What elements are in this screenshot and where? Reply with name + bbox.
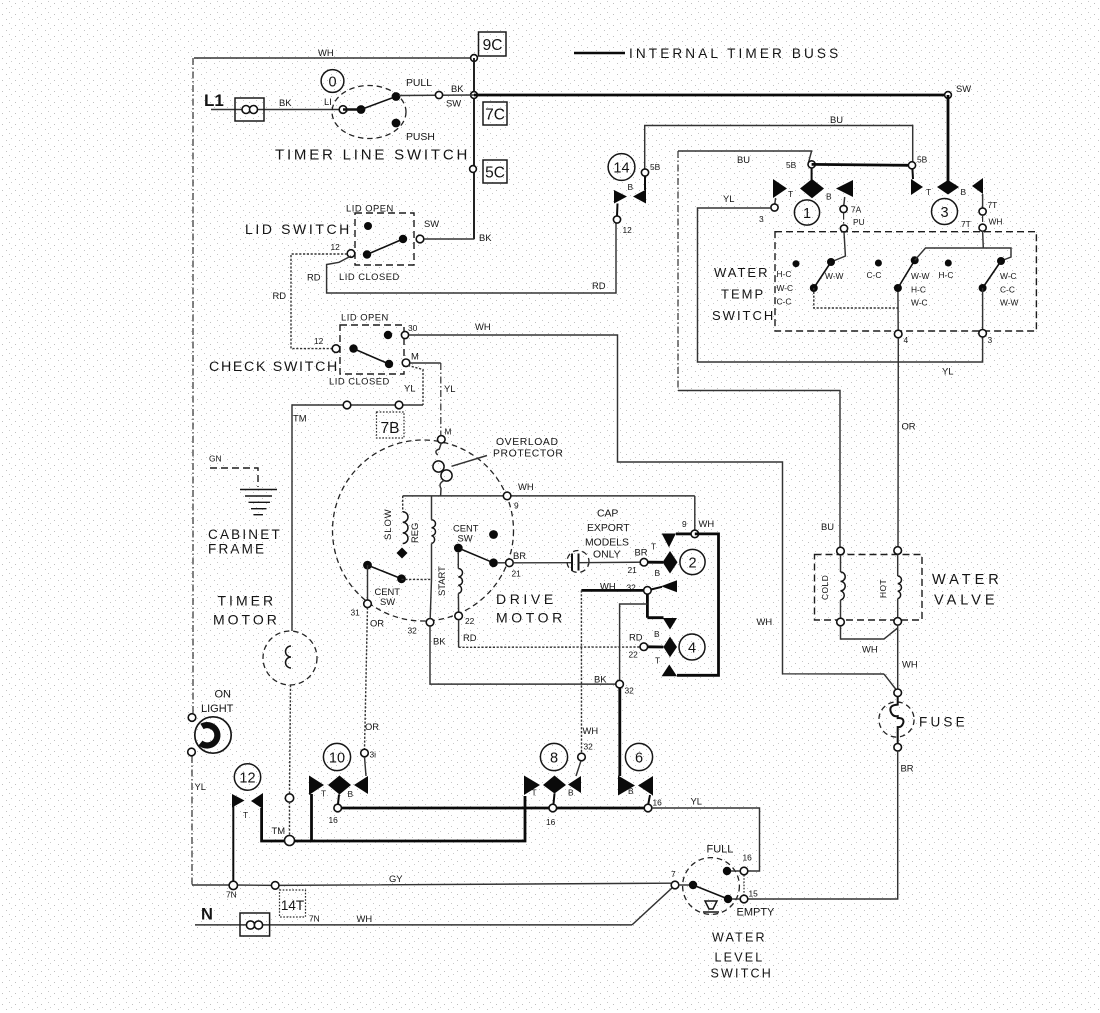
node 16 at connector 10 bbox=[329, 804, 342, 825]
svg-text:EMPTY: EMPTY bbox=[737, 907, 776, 919]
node M drive motor bbox=[438, 436, 446, 444]
water level switch labels bbox=[707, 844, 776, 981]
svg-text:OVERLOAD: OVERLOAD bbox=[496, 437, 559, 448]
svg-text:7T: 7T bbox=[988, 200, 998, 210]
label cabinet frame bbox=[208, 527, 282, 557]
svg-text:21: 21 bbox=[512, 569, 522, 579]
svg-text:INTERNAL TIMER BUSS: INTERNAL TIMER BUSS bbox=[629, 46, 841, 61]
svg-text:WH: WH bbox=[318, 47, 334, 58]
wire 7T into switch bbox=[982, 231, 985, 248]
svg-text:VALVE: VALVE bbox=[934, 593, 999, 609]
water temp switch box bbox=[712, 232, 1036, 331]
circled 6 bbox=[625, 743, 652, 770]
svg-text:TIMER LINE SWITCH: TIMER LINE SWITCH bbox=[275, 147, 470, 164]
node 32 motor bbox=[408, 579, 447, 646]
svg-text:BK: BK bbox=[479, 232, 492, 243]
node 3i above connector 10 bbox=[361, 749, 376, 776]
node 7A bbox=[840, 205, 862, 215]
svg-text:FRAME: FRAME bbox=[208, 542, 266, 557]
wire M check switch to drive motor bbox=[410, 363, 455, 437]
wire WH valve commons bbox=[841, 625, 918, 689]
circled 10 bbox=[323, 743, 350, 770]
node 5B left junction bbox=[786, 160, 815, 170]
connector 4 group bbox=[648, 618, 677, 676]
water temp switch pole 3 bbox=[945, 257, 1005, 330]
svg-text:TIMER: TIMER bbox=[218, 593, 277, 609]
svg-text:21: 21 bbox=[628, 565, 638, 575]
connector 8 group bbox=[524, 776, 581, 805]
svg-text:TEMP: TEMP bbox=[721, 287, 765, 302]
svg-text:WATER: WATER bbox=[932, 572, 1003, 588]
svg-text:PROTECTOR: PROTECTOR bbox=[493, 449, 563, 460]
overload protector bbox=[433, 443, 452, 496]
svg-text:L1: L1 bbox=[204, 91, 224, 110]
internal buss 5B to 5B bbox=[812, 163, 912, 167]
svg-text:0: 0 bbox=[328, 75, 336, 91]
node 21 at connector 2 bbox=[628, 542, 657, 576]
svg-text:9: 9 bbox=[514, 501, 519, 511]
node 31 bbox=[351, 600, 385, 629]
svg-text:RD: RD bbox=[273, 290, 287, 301]
svg-text:7N: 7N bbox=[226, 890, 237, 900]
svg-text:16: 16 bbox=[546, 817, 556, 827]
svg-text:9: 9 bbox=[682, 519, 687, 529]
wire WH 32 dotted down to connector 8 bbox=[581, 590, 598, 753]
svg-text:16: 16 bbox=[743, 853, 753, 863]
svg-text:C-C: C-C bbox=[777, 297, 792, 307]
svg-text:PU: PU bbox=[853, 217, 865, 227]
svg-text:CAP: CAP bbox=[597, 509, 618, 520]
label drive motor bbox=[496, 591, 566, 626]
lid switch bbox=[245, 203, 439, 283]
svg-text:BU: BU bbox=[821, 521, 834, 532]
terminal box 14T bbox=[280, 890, 306, 917]
svg-text:SWITCH: SWITCH bbox=[711, 967, 774, 981]
node BK/SW junction bbox=[471, 92, 478, 99]
svg-text:14T: 14T bbox=[281, 898, 304, 913]
svg-text:32: 32 bbox=[584, 742, 594, 752]
svg-text:START: START bbox=[436, 566, 447, 596]
wire YL connector 6 to water level switch FULL bbox=[652, 796, 760, 872]
circled 0 bbox=[321, 70, 344, 93]
node 16 at connector 8 bbox=[546, 804, 557, 827]
node BK 32 junction bbox=[616, 680, 634, 695]
cold solenoid bbox=[820, 547, 845, 626]
svg-text:W-C: W-C bbox=[911, 298, 928, 308]
svg-text:LID OPEN: LID OPEN bbox=[346, 203, 394, 214]
svg-text:31: 31 bbox=[351, 608, 361, 618]
svg-text:SW: SW bbox=[380, 596, 395, 607]
wire GY bottom bbox=[192, 873, 672, 900]
svg-text:WH: WH bbox=[518, 481, 534, 492]
svg-text:YL: YL bbox=[404, 383, 415, 394]
svg-text:WH: WH bbox=[600, 581, 616, 592]
svg-text:3: 3 bbox=[988, 335, 993, 345]
svg-text:12: 12 bbox=[331, 242, 341, 252]
timer motor bbox=[263, 631, 317, 794]
wire switch to SW junction bbox=[399, 83, 474, 109]
circled 1 bbox=[794, 200, 819, 225]
wire vertical 9C-7C-5C column bbox=[473, 58, 475, 239]
svg-text:FUSE: FUSE bbox=[919, 715, 968, 730]
wire 7T link bbox=[961, 215, 1002, 229]
wire OR node4 to hot valve bbox=[898, 338, 916, 547]
svg-text:T: T bbox=[243, 810, 248, 820]
start winding bbox=[436, 552, 463, 612]
svg-text:MOTOR: MOTOR bbox=[496, 610, 566, 626]
connector plug on N lead bbox=[240, 913, 270, 936]
node PU on water temp switch bbox=[840, 225, 847, 232]
circled 14 bbox=[608, 154, 635, 181]
svg-text:B: B bbox=[628, 182, 634, 192]
svg-text:B: B bbox=[348, 789, 354, 799]
svg-text:3i: 3i bbox=[370, 750, 377, 760]
connector plug on L1 lead bbox=[235, 98, 264, 121]
connector 14 bowtie bbox=[614, 176, 646, 216]
terminal box 7B bbox=[377, 412, 405, 438]
svg-text:30: 30 bbox=[408, 323, 418, 333]
svg-text:M: M bbox=[411, 351, 419, 362]
terminal box 5C bbox=[483, 160, 507, 183]
svg-text:LID CLOSED: LID CLOSED bbox=[329, 376, 390, 387]
svg-text:MODELS: MODELS bbox=[585, 538, 629, 549]
svg-text:SLOW: SLOW bbox=[382, 508, 393, 540]
wire BK 32 to node 32 right bbox=[430, 626, 616, 684]
slow winding bbox=[382, 496, 408, 559]
svg-text:H-C: H-C bbox=[777, 269, 792, 279]
svg-text:T: T bbox=[651, 542, 656, 552]
wire WH 9 down to connector 2 bbox=[682, 496, 714, 538]
reg winding bbox=[409, 496, 436, 580]
svg-text:12: 12 bbox=[623, 225, 633, 235]
svg-text:GY: GY bbox=[389, 873, 403, 884]
svg-text:B: B bbox=[568, 788, 574, 798]
wire RD lid switch 12 to connector 14 pin 12 bbox=[307, 223, 616, 293]
svg-text:LI: LI bbox=[324, 96, 332, 107]
node 3 bbox=[979, 330, 993, 346]
svg-text:5B: 5B bbox=[786, 160, 797, 170]
svg-text:W-C: W-C bbox=[777, 283, 794, 293]
svg-text:REG: REG bbox=[409, 523, 420, 543]
wire left border lower segment bbox=[191, 756, 193, 885]
connector 1 group bbox=[773, 168, 853, 206]
wire WH check switch 30 to water valve branch bbox=[409, 321, 896, 690]
svg-text:LID CLOSED: LID CLOSED bbox=[339, 271, 400, 282]
svg-text:SWITCH: SWITCH bbox=[712, 308, 775, 323]
svg-text:HOT: HOT bbox=[878, 579, 888, 598]
node 3 (connector 1) bbox=[759, 204, 778, 224]
svg-text:W-W: W-W bbox=[911, 271, 930, 281]
wire N lead WH bbox=[195, 888, 673, 925]
svg-text:FULL: FULL bbox=[707, 844, 734, 856]
svg-text:32: 32 bbox=[627, 583, 637, 593]
svg-text:9C: 9C bbox=[483, 37, 503, 54]
wire RD lid switch 12 to check switch 12 bbox=[273, 254, 348, 349]
node 12 under connector 14 bbox=[613, 216, 632, 235]
wire heavy BK down to connector 6 bbox=[618, 688, 621, 776]
internal buss TM to connector 8 bbox=[294, 796, 525, 841]
water temp switch pole 1 bbox=[793, 232, 898, 308]
svg-text:YL: YL bbox=[691, 796, 702, 807]
svg-text:TM: TM bbox=[272, 825, 286, 836]
svg-text:32: 32 bbox=[625, 686, 635, 696]
connector 2 group bbox=[648, 534, 691, 593]
svg-text:EXPORT: EXPORT bbox=[587, 523, 630, 534]
svg-text:T: T bbox=[926, 187, 931, 197]
svg-text:LID OPEN: LID OPEN bbox=[341, 312, 389, 323]
wire WH 9 motor top bbox=[403, 481, 695, 511]
svg-text:W-W: W-W bbox=[1000, 298, 1019, 308]
connector 10 group bbox=[309, 776, 368, 805]
wire 7A to PU bbox=[844, 213, 865, 227]
svg-text:WH: WH bbox=[357, 913, 373, 924]
buss vertical to connector 3 bbox=[947, 95, 950, 181]
svg-text:WATER: WATER bbox=[712, 931, 767, 945]
svg-text:CHECK SWITCH: CHECK SWITCH bbox=[209, 359, 339, 375]
node 7T upper bbox=[979, 200, 997, 215]
svg-text:YL: YL bbox=[195, 781, 206, 792]
node 7T on water temp switch bbox=[979, 224, 986, 231]
svg-text:WH: WH bbox=[583, 725, 599, 736]
circled 4 bbox=[679, 634, 705, 660]
svg-text:BK: BK bbox=[594, 674, 607, 685]
svg-text:WH: WH bbox=[757, 616, 773, 627]
wire OR 31 down to 3i bbox=[365, 608, 380, 750]
svg-text:7N: 7N bbox=[309, 914, 320, 924]
wire L1 lead BK bbox=[211, 96, 343, 110]
node SW junction bbox=[945, 83, 972, 98]
svg-text:TM: TM bbox=[293, 413, 307, 424]
svg-text:SW: SW bbox=[424, 218, 439, 229]
svg-text:2: 2 bbox=[688, 556, 696, 572]
internal buss right edge of connector block bbox=[677, 534, 719, 675]
svg-text:T: T bbox=[655, 656, 660, 666]
circled 12 bbox=[234, 764, 260, 790]
circled 8 bbox=[540, 743, 567, 770]
svg-text:C-C: C-C bbox=[1000, 285, 1015, 295]
svg-text:OR: OR bbox=[365, 721, 379, 732]
node 5B at connector 14 bbox=[641, 162, 660, 176]
svg-text:5B: 5B bbox=[917, 155, 928, 165]
svg-text:3: 3 bbox=[940, 205, 948, 221]
svg-text:BK: BK bbox=[279, 97, 292, 108]
svg-text:BR: BR bbox=[635, 547, 648, 558]
svg-text:YL: YL bbox=[444, 383, 455, 394]
svg-text:WH: WH bbox=[902, 659, 918, 670]
svg-text:H-C: H-C bbox=[939, 270, 954, 280]
svg-text:T: T bbox=[321, 789, 326, 799]
svg-text:SW: SW bbox=[446, 98, 461, 109]
circled 3 bbox=[932, 199, 958, 225]
svg-text:OR: OR bbox=[370, 618, 384, 629]
wire WH top border bbox=[194, 47, 474, 58]
svg-text:MOTOR: MOTOR bbox=[213, 612, 280, 628]
svg-text:BU: BU bbox=[830, 114, 843, 125]
svg-text:14: 14 bbox=[613, 161, 629, 177]
svg-text:T: T bbox=[532, 788, 537, 798]
cent sw upper bbox=[453, 523, 505, 568]
svg-text:BR: BR bbox=[901, 763, 914, 774]
water temp switch pole 2 bbox=[875, 248, 1011, 330]
node 5C junction bbox=[470, 166, 477, 173]
connector 6 bowtie bbox=[618, 776, 653, 805]
node WH32 above connector 8 bbox=[578, 753, 586, 761]
node BR 21 bbox=[506, 550, 527, 579]
svg-text:7: 7 bbox=[671, 869, 676, 879]
svg-text:BK: BK bbox=[451, 83, 464, 94]
svg-text:B: B bbox=[961, 187, 967, 197]
svg-text:16: 16 bbox=[653, 798, 663, 808]
wire BR fuse to water level switch bbox=[748, 751, 914, 899]
svg-text:12: 12 bbox=[314, 336, 324, 346]
svg-text:WH: WH bbox=[989, 217, 1003, 227]
svg-text:ONLY: ONLY bbox=[593, 550, 621, 561]
wire heavy connector 12 right to TM bus bbox=[262, 808, 285, 841]
wire heavy connector 12 left to 7N bbox=[232, 806, 234, 884]
svg-text:8: 8 bbox=[550, 751, 558, 767]
wire RD 22 to connector 4 bbox=[458, 620, 460, 648]
svg-text:3: 3 bbox=[759, 214, 764, 224]
svg-text:10: 10 bbox=[329, 751, 345, 767]
svg-text:15: 15 bbox=[749, 889, 759, 899]
wire BU lower loop bbox=[678, 151, 840, 547]
svg-text:LEVEL: LEVEL bbox=[715, 951, 765, 965]
svg-text:22: 22 bbox=[629, 650, 639, 660]
water valve box bbox=[815, 555, 1003, 621]
wire lid switch SW to 5C column BK bbox=[424, 232, 492, 243]
svg-text:YL: YL bbox=[723, 193, 734, 204]
svg-text:22: 22 bbox=[465, 616, 475, 626]
svg-text:WH: WH bbox=[475, 321, 491, 332]
svg-text:SW: SW bbox=[956, 83, 971, 94]
svg-text:RD: RD bbox=[629, 632, 643, 643]
svg-text:B: B bbox=[826, 192, 832, 202]
wire heavy connector 10 T to TM bus bbox=[310, 794, 313, 841]
svg-text:WH: WH bbox=[862, 644, 878, 655]
node 22 bbox=[455, 612, 477, 643]
legend: internal timer buss bbox=[574, 46, 841, 61]
fuse bbox=[879, 689, 968, 751]
svg-text:1: 1 bbox=[803, 206, 811, 222]
hot solenoid bbox=[878, 547, 902, 626]
svg-text:DRIVE: DRIVE bbox=[496, 591, 557, 607]
internal buss 16 line bbox=[342, 807, 645, 810]
internal timer buss top: SW bus bbox=[474, 94, 948, 97]
svg-text:C-C: C-C bbox=[867, 270, 882, 280]
svg-text:5B: 5B bbox=[650, 162, 661, 172]
node 4 bbox=[894, 330, 908, 345]
check switch bbox=[209, 312, 419, 387]
capacitor cap export bbox=[513, 509, 640, 573]
node TM junction bbox=[272, 825, 295, 846]
svg-text:6: 6 bbox=[635, 751, 643, 767]
svg-text:WH: WH bbox=[699, 518, 715, 529]
svg-text:16: 16 bbox=[329, 815, 339, 825]
node 5B right bbox=[908, 155, 927, 169]
svg-text:PULL: PULL bbox=[406, 78, 432, 89]
wire heavy down from WH32 node bbox=[620, 594, 664, 680]
label timer motor bbox=[213, 593, 280, 628]
svg-text:5C: 5C bbox=[485, 165, 505, 182]
svg-text:RD: RD bbox=[592, 280, 606, 291]
svg-text:B: B bbox=[654, 629, 660, 639]
node on TM line bbox=[285, 794, 293, 802]
terminal box 9C bbox=[479, 32, 507, 56]
svg-text:BK: BK bbox=[433, 636, 446, 647]
label overload protector bbox=[452, 437, 564, 466]
svg-text:W-C: W-C bbox=[1000, 271, 1017, 281]
svg-text:RD: RD bbox=[307, 272, 321, 283]
timer line switch bbox=[332, 78, 435, 143]
svg-text:B: B bbox=[628, 786, 634, 796]
terminal box 7C bbox=[483, 102, 507, 125]
svg-text:7T: 7T bbox=[961, 219, 971, 229]
svg-text:RD: RD bbox=[463, 632, 477, 643]
svg-text:ON: ON bbox=[215, 689, 232, 701]
svg-text:7B: 7B bbox=[381, 420, 400, 437]
connector 3 group bbox=[911, 169, 983, 209]
svg-text:LIGHT: LIGHT bbox=[201, 703, 234, 715]
wire YL connector1 pin3 loop around water temp switch bbox=[698, 193, 983, 377]
svg-text:12: 12 bbox=[239, 771, 255, 787]
drive motor dashed circle bbox=[333, 440, 514, 621]
svg-text:LID SWITCH: LID SWITCH bbox=[245, 221, 352, 237]
svg-text:BR: BR bbox=[513, 550, 526, 561]
on light bbox=[188, 689, 234, 793]
connector 12 bowtie bbox=[232, 793, 263, 820]
circled 2 bbox=[680, 549, 705, 574]
svg-text:4: 4 bbox=[688, 641, 696, 657]
wire TM line bbox=[292, 401, 423, 631]
svg-text:T: T bbox=[788, 189, 793, 199]
wire left border YL (dash-dot) bbox=[192, 58, 194, 713]
svg-text:4: 4 bbox=[904, 335, 909, 345]
water level switch bbox=[671, 858, 748, 915]
node 16 at connector 6 bbox=[644, 798, 662, 812]
svg-text:N: N bbox=[201, 906, 213, 924]
svg-text:7C: 7C bbox=[485, 107, 505, 124]
svg-text:W-W: W-W bbox=[825, 271, 844, 281]
svg-text:7A: 7A bbox=[851, 205, 862, 215]
wire BU upper loop bbox=[645, 114, 913, 169]
svg-text:SW: SW bbox=[458, 533, 473, 544]
node RD 22 at connector 4 bbox=[629, 632, 648, 660]
svg-text:GN: GN bbox=[209, 454, 222, 464]
svg-text:BU: BU bbox=[737, 154, 750, 165]
svg-text:OR: OR bbox=[902, 421, 916, 432]
cent sw lower bbox=[363, 561, 431, 607]
svg-text:32: 32 bbox=[408, 626, 418, 636]
node 9C junction bbox=[471, 55, 478, 62]
svg-text:M: M bbox=[445, 427, 452, 437]
svg-text:CABINET: CABINET bbox=[208, 527, 282, 542]
svg-text:YL: YL bbox=[942, 366, 953, 377]
pole 2 labels bbox=[867, 270, 930, 308]
wire YL check switch M to TM line bbox=[404, 366, 423, 406]
svg-text:H-C: H-C bbox=[911, 285, 926, 295]
svg-text:WATER: WATER bbox=[714, 265, 770, 280]
svg-text:B: B bbox=[655, 568, 661, 578]
svg-text:COLD: COLD bbox=[820, 575, 830, 600]
node WH 32 at connector 2 bbox=[581, 581, 662, 595]
svg-text:PUSH: PUSH bbox=[406, 132, 435, 143]
ground GN cabinet frame bbox=[209, 454, 277, 515]
pole 3 labels bbox=[939, 270, 1019, 308]
pole 1 labels bbox=[777, 269, 844, 307]
